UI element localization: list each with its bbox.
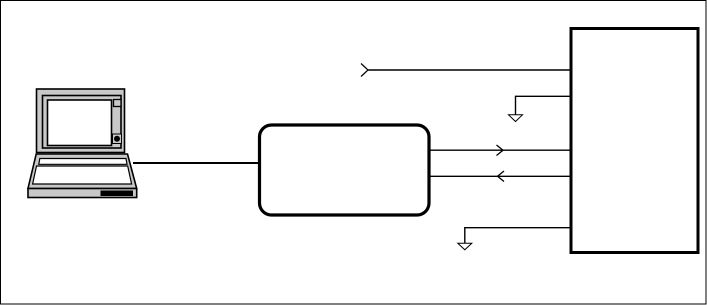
wire laptop to converter box	[133, 162, 259, 164]
laptop base top white strip	[39, 159, 127, 165]
laptop base body	[28, 154, 137, 189]
laptop screen	[48, 100, 112, 146]
wire top signal line	[368, 69, 570, 71]
laptop base black label	[101, 191, 134, 197]
converter box (rounded rectangle)	[260, 125, 430, 215]
open arrowhead pointing right at line start	[361, 64, 368, 77]
laptop power button dot	[114, 136, 120, 142]
laptop power button bezel	[113, 134, 122, 144]
wire controller to converter (rx)	[429, 175, 570, 177]
controller block (large rectangle)	[571, 29, 698, 253]
computer PC laptop	[28, 89, 137, 198]
wire to ground (upper elbow)	[516, 96, 570, 114]
open arrowhead pointing left (mid-line)	[498, 171, 505, 182]
laptop indicator square	[114, 100, 122, 107]
laptop keyboard area	[33, 166, 132, 184]
open triangle arrowhead down (lower)	[458, 243, 472, 250]
laptop base bottom bar	[28, 189, 137, 198]
wire to ground (lower elbow)	[465, 228, 570, 243]
laptop monitor inner frame	[43, 96, 122, 149]
open triangle arrowhead down (upper)	[509, 115, 523, 122]
wire converter to controller (tx)	[429, 149, 570, 151]
laptop monitor outer frame	[37, 89, 125, 153]
open arrowhead pointing right (mid-line)	[497, 145, 504, 156]
